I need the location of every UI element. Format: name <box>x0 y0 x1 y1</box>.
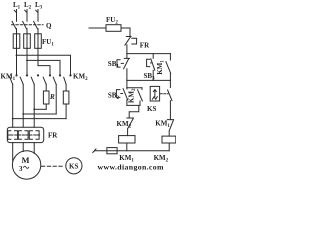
wire phase1 down <box>16 48 18 74</box>
button SB3 start <box>147 54 155 81</box>
wire L2 drop <box>25 10 27 22</box>
contact KM1 aux NO <box>166 54 171 81</box>
contact KM1 interlock NC <box>167 120 173 137</box>
wire KM1 out1 <box>12 84 14 127</box>
svg-text:www.diangon.com: www.diangon.com <box>98 163 164 172</box>
wire crossover L1 to KM2 pole3 <box>17 55 71 74</box>
svg-text:FR: FR <box>140 41 150 49</box>
fuse bottom rail <box>107 148 117 154</box>
fuse FU1 pole 2 <box>24 34 31 49</box>
coil KM1 <box>119 136 135 151</box>
wire SB2 row feed <box>127 87 142 89</box>
svg-text:KS: KS <box>69 162 78 170</box>
switch Q pole 2 <box>23 21 27 33</box>
button SB1 stop <box>117 54 130 81</box>
svg-text:FR: FR <box>48 132 58 140</box>
thermal contact FR <box>125 36 137 53</box>
wire bottom rail <box>95 150 170 152</box>
wire motor lead 2 <box>22 143 24 152</box>
junction dot merge 3 <box>33 108 35 110</box>
contact KM2 interlock NC <box>127 118 133 136</box>
wire phase2 down <box>26 48 28 74</box>
thermal relay FR heater 3 <box>29 131 39 140</box>
speed switch KS box <box>150 86 159 101</box>
wire crossover L2 to KM2 pole2 <box>27 60 60 74</box>
button SB2 <box>116 88 127 106</box>
contact KS NO <box>168 80 172 119</box>
fuse FU1 pole 1 <box>13 34 20 49</box>
switch Q linkage <box>12 24 44 26</box>
thermal relay FR box <box>7 127 43 142</box>
junction dot merge 2 <box>22 113 24 115</box>
wire branch drop <box>126 80 128 87</box>
mechanical link KS box to contact <box>160 93 168 95</box>
wire merge out3 to phase1 <box>13 118 66 120</box>
resistor branch 3 <box>63 84 69 118</box>
thermal relay FR heater 2 <box>18 131 28 140</box>
junction dot merge 1 <box>12 118 14 120</box>
wire mid rail <box>127 79 170 81</box>
wire SB2 KM2 rejoin <box>127 105 140 118</box>
wire KM1 out2 <box>22 84 24 127</box>
svg-text:Q: Q <box>46 22 52 30</box>
fuse FU1 pole 3 <box>35 34 42 49</box>
contactor KM2 main pole 2 <box>53 74 61 84</box>
wire merge R1 to phase3 <box>34 108 46 110</box>
wire KM1 out3 <box>33 84 35 127</box>
speed switch KS circle <box>66 158 82 174</box>
wire top rail <box>127 53 170 55</box>
thermal relay FR heater 1 <box>8 131 18 140</box>
contactor KM2 main pole 1 <box>43 74 51 84</box>
contactor KM1 main pole 3 <box>31 74 39 84</box>
thermal relay FR linkage <box>11 134 41 136</box>
resistor R branch 1 <box>43 84 49 109</box>
switch Q pole 3 <box>34 21 38 33</box>
wire phase3 down <box>37 48 39 65</box>
svg-text:R: R <box>49 93 55 101</box>
wire motor lead 3 <box>33 143 35 154</box>
switch Q pole 1 <box>12 21 16 33</box>
contact KM2 aux NO <box>138 88 143 106</box>
junction dot L1 tap <box>16 54 18 56</box>
mechanical link motor to KS <box>42 165 65 167</box>
junction dot L2 tap <box>26 60 28 62</box>
contactor KM1 main pole 2 <box>20 74 28 84</box>
motor M circle <box>12 151 40 179</box>
wire KM2 out2 <box>55 84 57 114</box>
fuse FU2 <box>89 25 130 37</box>
svg-text:KS: KS <box>147 105 156 113</box>
wire merge out2 to phase2 <box>23 113 56 115</box>
contactor KM1 main pole 1 <box>10 74 18 84</box>
wire crossover L3 to KM2 pole1 <box>38 66 50 75</box>
svg-text:3: 3 <box>19 165 23 173</box>
contactor KM2 main pole 3 <box>64 74 72 84</box>
wire motor lead 1 <box>12 143 14 161</box>
wire L3 drop <box>36 10 38 22</box>
wire L1 drop <box>14 10 16 22</box>
coil KM2 <box>162 136 176 151</box>
break mark bottom rail <box>93 149 96 153</box>
svg-text:M: M <box>22 155 30 165</box>
